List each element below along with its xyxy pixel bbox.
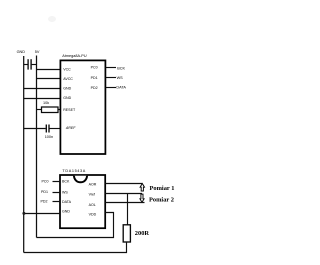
wire AOL xyxy=(105,202,144,204)
svg-text:TDA1543A: TDA1543A xyxy=(62,169,86,173)
wire VCC from 5V rail to U1 xyxy=(37,69,61,71)
wire PD1 to WS net xyxy=(106,77,116,79)
resistor R2 200R xyxy=(123,225,130,242)
wire PD2 to DATA net xyxy=(106,87,116,89)
svg-text:DATA: DATA xyxy=(116,86,126,90)
svg-text:PC0: PC0 xyxy=(42,180,49,184)
svg-text:GND: GND xyxy=(63,96,71,100)
svg-text:GND: GND xyxy=(63,87,71,91)
svg-text:AREF: AREF xyxy=(65,126,76,130)
svg-text:Atmega8A-PU: Atmega8A-PU xyxy=(62,54,87,58)
svg-text:RESET: RESET xyxy=(63,108,76,112)
wire GND pin 1 from GND rail to U1 xyxy=(24,88,61,90)
IC U1 Atmega8A-PU body xyxy=(60,60,105,154)
connector Pomiar 1 up arrow probe xyxy=(140,184,144,192)
capacitor C1 decoupling between GND and 5V xyxy=(24,59,37,69)
svg-text:AOL: AOL xyxy=(89,203,96,207)
svg-text:GND: GND xyxy=(17,50,26,54)
svg-text:PD1: PD1 xyxy=(41,190,48,194)
wire R2 bottom to GND rail xyxy=(24,242,127,253)
svg-text:AOR: AOR xyxy=(89,183,97,187)
svg-text:DATA: DATA xyxy=(62,200,72,204)
svg-text:Vref: Vref xyxy=(89,193,95,197)
wire Vref to Pomiar 2 xyxy=(105,193,142,195)
wire VDD to 5V xyxy=(37,213,114,238)
svg-text:PD1: PD1 xyxy=(91,76,98,80)
wire WS pin of U2 xyxy=(53,192,61,194)
faint smudge artifact xyxy=(48,16,56,22)
wire Vref branch down to R2 xyxy=(127,194,129,225)
wire GND pin 2 from GND rail to U1 xyxy=(24,98,61,100)
connector Pomiar 2 down arrow probe xyxy=(140,194,144,202)
svg-text:AVCC: AVCC xyxy=(63,77,73,81)
wire GND rail vertical xyxy=(23,56,25,253)
svg-text:WS: WS xyxy=(117,76,124,80)
svg-text:WS: WS xyxy=(62,191,68,195)
IC U2 TDA1543A body xyxy=(60,175,105,228)
svg-text:BCK: BCK xyxy=(62,180,70,184)
svg-text:PC0: PC0 xyxy=(91,66,98,70)
wire DATA pin of U2 xyxy=(53,201,61,203)
wire PC0 to BCK net xyxy=(106,67,116,69)
svg-text:100n: 100n xyxy=(45,135,53,139)
svg-text:VDD: VDD xyxy=(89,213,97,217)
svg-text:PD2: PD2 xyxy=(91,86,98,90)
svg-text:5V: 5V xyxy=(35,50,40,54)
svg-text:10k: 10k xyxy=(43,101,49,105)
junction dot on GND rail xyxy=(22,212,25,215)
svg-text:BCK: BCK xyxy=(117,66,125,70)
svg-text:200R: 200R xyxy=(135,230,150,237)
wire BCK pin of U2 xyxy=(53,181,61,183)
IC U2 notch xyxy=(74,176,87,183)
wire AOR to Pomiar 1 xyxy=(105,183,142,185)
svg-text:VCC: VCC xyxy=(63,67,71,71)
svg-text:GND: GND xyxy=(62,210,70,214)
wire 5V rail vertical xyxy=(36,56,38,238)
resistor R1 10k pull-up on RESET xyxy=(37,107,61,113)
svg-text:Pomiar 1: Pomiar 1 xyxy=(150,185,175,192)
wire GND pin of U2 from GND rail xyxy=(24,213,60,215)
capacitor C2 100n on AREF xyxy=(24,125,61,133)
svg-text:Pomiar 2: Pomiar 2 xyxy=(149,197,174,204)
wire AVCC from 5V rail to U1 xyxy=(37,78,61,80)
svg-text:PD2: PD2 xyxy=(41,200,48,204)
